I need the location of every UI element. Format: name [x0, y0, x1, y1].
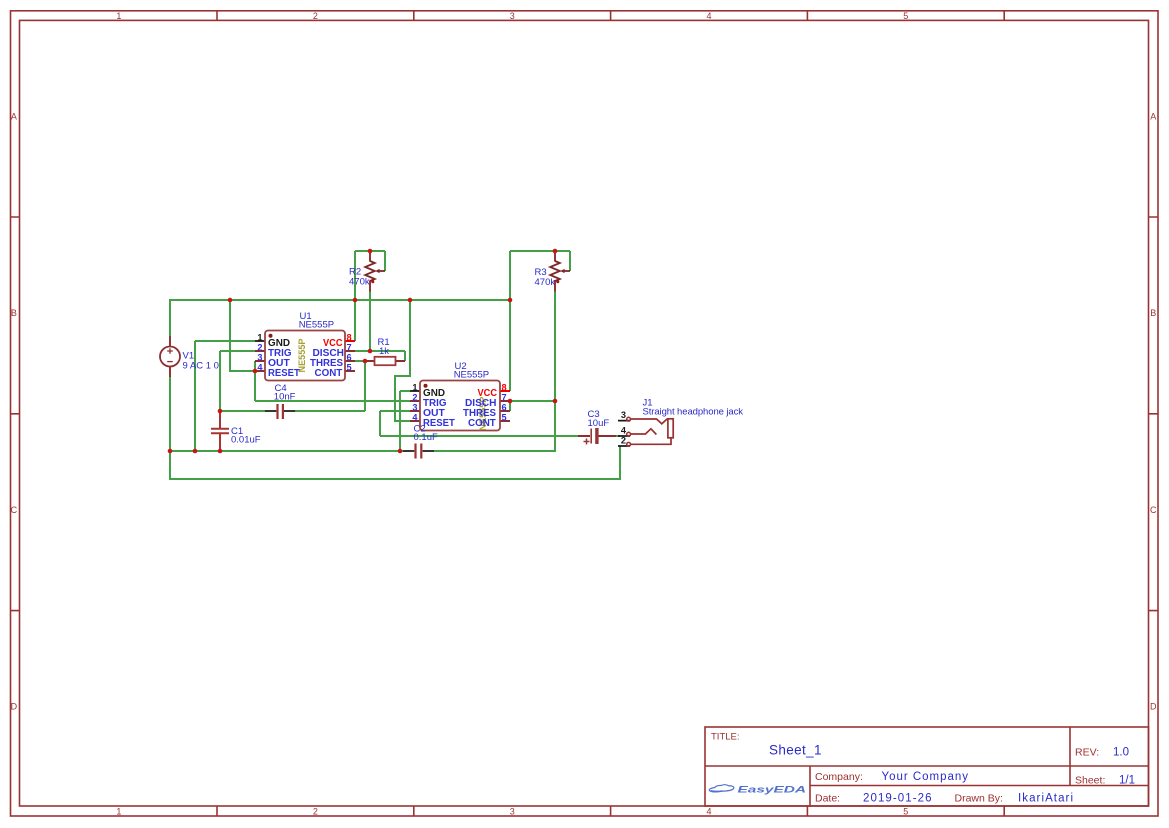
svg-text:10nF: 10nF — [274, 392, 296, 403]
svg-text:CONT: CONT — [315, 368, 343, 379]
svg-text:3: 3 — [510, 11, 515, 21]
svg-text:4: 4 — [706, 11, 711, 21]
svg-text:5: 5 — [903, 11, 908, 21]
svg-text:B: B — [11, 308, 17, 318]
svg-text:Sheet_1: Sheet_1 — [769, 743, 822, 758]
svg-text:Your Company: Your Company — [882, 771, 969, 783]
svg-text:3: 3 — [621, 410, 626, 420]
svg-text:7: 7 — [347, 342, 352, 352]
svg-text:A: A — [11, 111, 17, 121]
svg-text:0.1uF: 0.1uF — [414, 432, 438, 443]
svg-text:4: 4 — [257, 362, 263, 372]
svg-text:5: 5 — [903, 806, 908, 816]
svg-text:3: 3 — [510, 806, 515, 816]
svg-text:2: 2 — [313, 11, 318, 21]
svg-text:8: 8 — [502, 382, 507, 392]
svg-text:1/1: 1/1 — [1119, 775, 1135, 787]
svg-text:3: 3 — [412, 402, 417, 412]
svg-text:EasyEDA: EasyEDA — [738, 785, 807, 795]
svg-text:0.01uF: 0.01uF — [231, 435, 261, 446]
svg-text:5: 5 — [502, 412, 507, 422]
svg-text:1k: 1k — [379, 346, 389, 357]
svg-text:7: 7 — [502, 392, 507, 402]
svg-text:Sheet:: Sheet: — [1075, 775, 1105, 787]
svg-text:D: D — [11, 701, 18, 711]
svg-text:A: A — [1150, 111, 1156, 121]
svg-text:2: 2 — [257, 342, 262, 352]
svg-text:10uF: 10uF — [588, 418, 610, 429]
svg-text:6: 6 — [347, 352, 352, 362]
svg-text:Company:: Company: — [815, 771, 863, 783]
svg-text:2019-01-26: 2019-01-26 — [863, 793, 932, 805]
svg-text:NE555P: NE555P — [454, 370, 489, 381]
svg-text:1: 1 — [116, 806, 121, 816]
svg-text:REV:: REV: — [1075, 747, 1099, 759]
svg-text:3: 3 — [257, 352, 262, 362]
svg-text:D: D — [1150, 701, 1157, 711]
svg-text:9 AC 1 0: 9 AC 1 0 — [183, 361, 219, 372]
svg-text:1: 1 — [257, 332, 262, 342]
svg-text:2: 2 — [313, 806, 318, 816]
svg-text:Drawn By:: Drawn By: — [955, 793, 1003, 805]
svg-text:TITLE:: TITLE: — [711, 732, 740, 743]
svg-text:1.0: 1.0 — [1113, 747, 1129, 759]
svg-text:Straight headphone jack: Straight headphone jack — [643, 406, 744, 417]
svg-text:2: 2 — [412, 392, 417, 402]
svg-text:5: 5 — [347, 362, 352, 372]
svg-text:2: 2 — [621, 436, 626, 446]
svg-text:4: 4 — [412, 412, 418, 422]
svg-text:8: 8 — [347, 332, 352, 342]
svg-text:CONT: CONT — [468, 418, 496, 429]
svg-text:4: 4 — [706, 806, 711, 816]
svg-text:RESET: RESET — [268, 368, 300, 379]
svg-text:IkariAtari: IkariAtari — [1018, 793, 1073, 805]
svg-text:6: 6 — [502, 402, 507, 412]
svg-text:470k: 470k — [349, 277, 370, 288]
svg-text:C: C — [1150, 505, 1157, 515]
svg-text:1: 1 — [412, 382, 417, 392]
svg-text:470k: 470k — [535, 277, 556, 288]
svg-text:NE555P: NE555P — [299, 320, 334, 331]
svg-text:B: B — [1150, 308, 1156, 318]
svg-text:Date:: Date: — [815, 793, 840, 805]
svg-text:C: C — [11, 505, 18, 515]
svg-text:RESET: RESET — [423, 418, 455, 429]
svg-text:1: 1 — [116, 11, 121, 21]
